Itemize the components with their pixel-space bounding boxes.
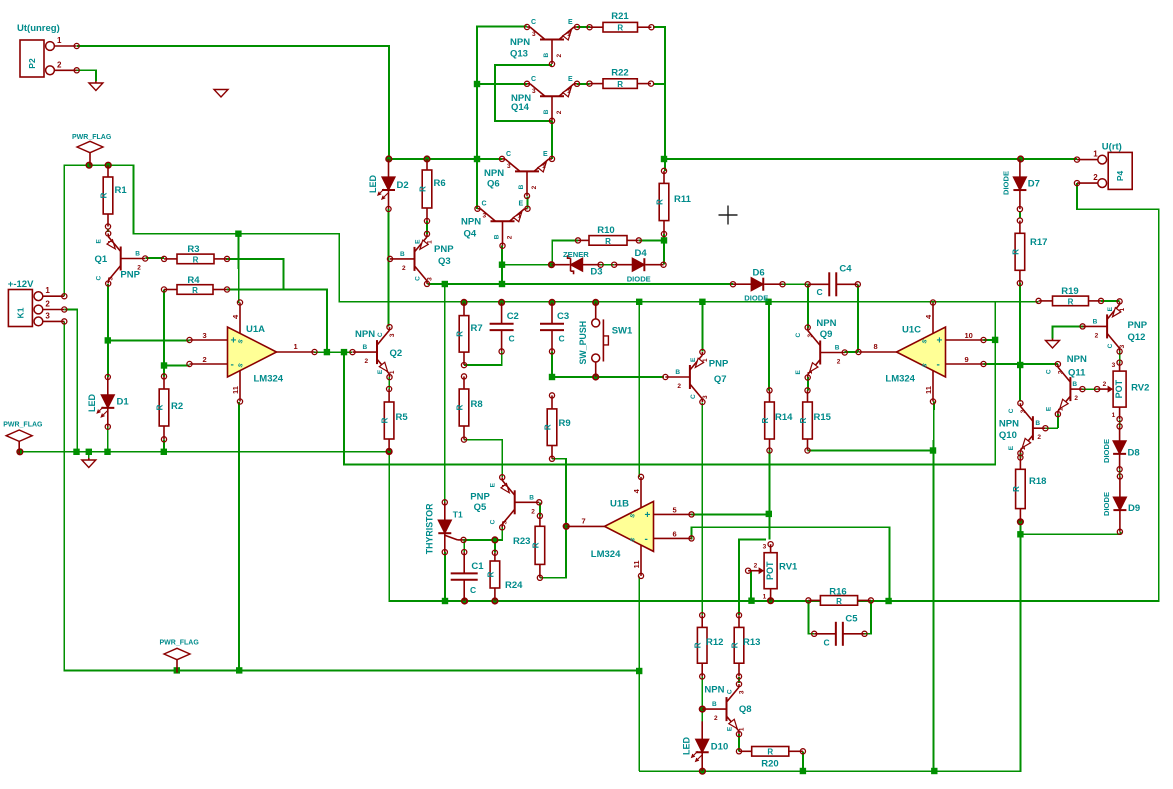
diode D7 (1002, 159, 1040, 212)
svg-text:1: 1 (542, 163, 546, 170)
wire U1B pin6 loop (692, 527, 890, 601)
svg-text:3: 3 (483, 213, 487, 220)
op-amp U1C (856, 300, 986, 404)
svg-text:E: E (727, 726, 734, 731)
svg-text:3: 3 (807, 334, 814, 338)
LED D10 (682, 721, 729, 771)
resistor R17 (1011, 218, 1047, 286)
wire C5 left to R16 left (808, 600, 814, 633)
svg-text:2: 2 (531, 508, 535, 515)
svg-text:R: R (731, 642, 740, 648)
svg-text:B: B (494, 234, 501, 239)
svg-text:3: 3 (203, 331, 207, 340)
wire Q14 base to Q6 emitter (551, 121, 553, 159)
svg-text:1: 1 (108, 240, 115, 244)
svg-text:R: R (531, 542, 540, 548)
wire R15 bottom row (808, 450, 934, 452)
wire Q13 emitter to R21 (577, 26, 590, 28)
wire R8 bottom to Q5 emitter (464, 440, 502, 477)
svg-text:R1: R1 (115, 185, 128, 196)
wire to U1A pin3 (108, 339, 190, 341)
svg-text:R9: R9 (559, 418, 571, 429)
junction (474, 81, 480, 87)
svg-text:1: 1 (1119, 307, 1126, 311)
wire U1A pin11 down (238, 402, 240, 671)
wire R4 right to output (227, 290, 327, 353)
wire to R24 top (494, 540, 496, 553)
wire D3 to D4 (601, 264, 615, 266)
junction (442, 598, 448, 604)
svg-text:3: 3 (532, 31, 536, 38)
svg-text:R4: R4 (187, 275, 200, 286)
svg-text:POT: POT (1114, 379, 1124, 398)
diode D9 (1102, 474, 1140, 535)
LED D1 (87, 374, 129, 429)
resistor R21 (587, 11, 654, 33)
pin junction (700, 706, 706, 712)
svg-text:R18: R18 (1029, 476, 1046, 487)
svg-text:R: R (381, 417, 390, 423)
svg-text:SW1: SW1 (612, 325, 633, 336)
svg-text:3: 3 (763, 544, 767, 551)
svg-text:NPN: NPN (355, 329, 375, 340)
svg-text:C4: C4 (839, 264, 852, 275)
junction (174, 667, 180, 673)
svg-text:2: 2 (57, 60, 62, 69)
wire Q9 emitter to R15 (807, 377, 809, 390)
svg-text:Q5: Q5 (474, 502, 487, 513)
svg-text:C: C (96, 276, 103, 281)
svg-text:B: B (363, 344, 368, 351)
svg-text:R: R (656, 199, 665, 205)
svg-text:D10: D10 (711, 742, 728, 753)
svg-text:4: 4 (231, 314, 240, 319)
svg-text:PWR_FLAG: PWR_FLAG (3, 422, 43, 429)
resistor R4 (161, 275, 229, 295)
svg-text:E: E (568, 19, 573, 26)
junction (442, 281, 448, 287)
resistor R11 (656, 168, 692, 236)
wire K1 pin3 ground rail (64, 321, 639, 670)
svg-text:PNP: PNP (1128, 320, 1148, 331)
resistor R5 (381, 386, 409, 453)
ground (1046, 339, 1060, 349)
svg-text:SW_PUSH: SW_PUSH (578, 321, 588, 365)
svg-text:R: R (617, 80, 623, 89)
wire D9 bottom stub (1119, 532, 1121, 535)
pin junction (549, 300, 555, 306)
svg-text:R: R (1012, 486, 1021, 492)
svg-text:ZENER: ZENER (563, 250, 589, 259)
wire Q7 collector to R12 (701, 403, 703, 616)
svg-text:R19: R19 (1061, 286, 1078, 297)
wire R6 bottom to Q3 emitter (426, 221, 428, 234)
potentiometer RV2 (1095, 360, 1150, 422)
svg-text:3: 3 (1112, 362, 1116, 369)
wire P2 pin2 to ground (77, 70, 96, 81)
svg-text:E: E (519, 201, 524, 208)
wire output bus to U1C pin10 (344, 302, 995, 465)
junction (636, 299, 642, 305)
svg-text:NPN: NPN (816, 318, 836, 329)
wire C3 bottom down (551, 351, 553, 377)
svg-text:C: C (559, 334, 565, 344)
svg-text:U1B: U1B (610, 499, 629, 510)
diode D3 (549, 250, 603, 277)
wire Q13 collector column (477, 27, 527, 210)
svg-text:R: R (836, 597, 842, 606)
pin junction (499, 300, 505, 306)
svg-text:U(rt): U(rt) (1102, 142, 1122, 153)
transistor Q9 (795, 318, 847, 380)
connector P4 (1074, 142, 1132, 190)
svg-text:U1A: U1A (246, 324, 265, 335)
wire R18 bottom rail (639, 522, 1020, 771)
svg-text:D9: D9 (1128, 503, 1140, 514)
svg-text:R: R (456, 331, 465, 337)
svg-text:3: 3 (507, 163, 511, 170)
svg-text:C2: C2 (507, 311, 519, 322)
svg-text:Q9: Q9 (820, 329, 833, 340)
junction (161, 362, 167, 368)
svg-text:D1: D1 (117, 397, 130, 408)
transistor Q2 (350, 325, 402, 380)
svg-text:Q1: Q1 (95, 254, 108, 265)
svg-text:R: R (419, 186, 428, 192)
svg-text:R: R (100, 192, 109, 198)
pin junction (700, 768, 706, 774)
wire Q10 emitter to R18 (1019, 453, 1021, 457)
svg-text:D8: D8 (1128, 448, 1140, 459)
wire down to D5 anode (444, 284, 446, 502)
wire C3 node to Q7 base (552, 376, 664, 378)
svg-text:PWR_FLAG: PWR_FLAG (160, 640, 200, 647)
svg-text:B: B (675, 369, 680, 376)
svg-text:LED: LED (682, 736, 692, 755)
svg-text:B: B (1093, 318, 1098, 325)
pin junction (386, 449, 392, 455)
junction (161, 449, 167, 455)
wire to Q14 collector (477, 83, 527, 85)
svg-text:1: 1 (502, 483, 509, 487)
resistor R8 (456, 374, 483, 442)
wire U1B pin4 up to bus (638, 302, 640, 477)
svg-text:K1: K1 (15, 307, 25, 318)
svg-text:R23: R23 (513, 536, 530, 547)
wire C4 left to Q9 collector (807, 284, 809, 328)
wire Q5 base to R23 top (539, 502, 541, 516)
transistor Q14 (511, 76, 580, 124)
svg-text:1: 1 (1057, 407, 1064, 411)
svg-text:2: 2 (556, 54, 563, 58)
wire D7 to R17 (1019, 211, 1021, 218)
svg-text:Q10: Q10 (999, 430, 1017, 441)
capacitor C2 (490, 302, 519, 354)
svg-text:Q2: Q2 (390, 348, 403, 359)
svg-text:3: 3 (108, 277, 115, 281)
svg-text:1: 1 (763, 594, 767, 601)
transistor Q10 (999, 401, 1048, 456)
wire Q1 base to R3 (145, 257, 164, 259)
transistor Q7 (663, 349, 729, 404)
wire U1A output to Q2 base (314, 351, 352, 353)
svg-text:11: 11 (231, 386, 240, 394)
junction (474, 156, 480, 162)
svg-text:1: 1 (389, 370, 396, 374)
resistor R15 (799, 388, 832, 453)
svg-text:R16: R16 (829, 587, 846, 598)
svg-text:THYRISTOR: THYRISTOR (424, 503, 434, 554)
pin junction (105, 162, 111, 168)
wire RV2 to D8 (1119, 419, 1121, 426)
svg-text:1: 1 (45, 286, 50, 295)
svg-text:Q3: Q3 (438, 256, 451, 267)
svg-text:B: B (712, 701, 717, 708)
svg-text:R5: R5 (396, 412, 409, 423)
svg-text:DIODE: DIODE (1102, 492, 1111, 516)
wire C5 right to R16 right (865, 600, 871, 633)
power flag PWR_FLAG (72, 134, 112, 166)
wire R21 to R11 top (653, 27, 665, 171)
wire R19 to Q12 emitter (1101, 300, 1120, 302)
wire R20 right down (802, 751, 804, 771)
wire P4 pin2 long rail (389, 183, 1159, 601)
wire to C1 top (463, 540, 465, 552)
wire Q2 emitter to R5 (388, 377, 390, 389)
svg-text:C: C (1008, 408, 1015, 413)
pin junction (492, 598, 498, 604)
svg-text:11: 11 (632, 560, 641, 568)
svg-text:7: 7 (582, 516, 586, 525)
pin junction (1018, 156, 1024, 162)
svg-text:3: 3 (45, 311, 50, 320)
wire D1 bottom (107, 427, 109, 452)
svg-text:+: + (937, 336, 943, 347)
svg-text:DIODE: DIODE (744, 294, 768, 303)
wire R3 right feedback (226, 259, 284, 290)
wire U1C pin10 stub (984, 339, 996, 341)
wire Q5 collector to D5 gate (464, 525, 503, 540)
wire Q4 base down (501, 246, 503, 285)
wire Q3 collector row to D6 (427, 283, 733, 285)
junction (499, 281, 505, 287)
svg-text:U1C: U1C (902, 325, 921, 336)
svg-text:-: - (937, 360, 940, 371)
wire Q6 base to Q4 emitter (526, 196, 528, 208)
svg-text:C: C (531, 19, 536, 26)
svg-text:PNP: PNP (120, 270, 140, 281)
svg-text:B: B (543, 53, 550, 58)
wire RV1 wiper down (750, 571, 752, 600)
svg-text:E: E (543, 151, 548, 158)
svg-text:R: R (767, 748, 773, 757)
junction (73, 449, 79, 455)
pin junction (549, 262, 555, 268)
svg-text:2: 2 (1037, 434, 1041, 441)
svg-text:1: 1 (57, 36, 62, 45)
svg-text:PWR_FLAG: PWR_FLAG (72, 134, 112, 141)
pin junction (424, 156, 430, 162)
svg-text:Q13: Q13 (510, 48, 528, 59)
svg-text:R: R (605, 237, 611, 246)
svg-text:C: C (531, 76, 536, 83)
junction (324, 349, 330, 355)
wire P2 pin1 to D2 node (77, 46, 389, 159)
svg-text:1: 1 (294, 342, 298, 351)
svg-text:E: E (795, 370, 802, 375)
diode D6 (730, 268, 785, 303)
svg-text:LM324: LM324 (254, 374, 284, 385)
svg-text:11: 11 (924, 386, 933, 394)
svg-text:2: 2 (365, 358, 369, 365)
svg-text:3: 3 (1119, 344, 1126, 348)
junction (236, 667, 242, 673)
junction (341, 349, 347, 355)
wire Q11 base to RV2 wiper (1082, 388, 1097, 390)
svg-text:2: 2 (203, 355, 207, 364)
svg-text:POT: POT (765, 561, 775, 580)
svg-text:1: 1 (427, 240, 434, 244)
svg-text:C3: C3 (557, 311, 569, 322)
svg-text:R3: R3 (187, 244, 199, 255)
junction (105, 337, 111, 343)
svg-text:P2: P2 (27, 58, 37, 69)
resistor R1 (100, 165, 128, 229)
wire C4 right to Q9 base node (857, 284, 859, 352)
svg-text:E: E (568, 76, 573, 83)
transistor Q1 (95, 231, 148, 286)
svg-text:3: 3 (1020, 409, 1027, 413)
svg-text:+: + (645, 510, 651, 521)
svg-text:E: E (415, 239, 422, 244)
wire Q8 emitter to R20 (738, 734, 740, 751)
wire gnd stub (88, 452, 90, 458)
pin junction (593, 374, 599, 380)
svg-text:D3: D3 (590, 267, 602, 278)
wire D5 cathode to rail (444, 552, 446, 601)
svg-text:NPN: NPN (1067, 354, 1087, 365)
junction (1017, 531, 1023, 537)
wire K1 pin2 down (64, 310, 77, 452)
diode D4 (612, 248, 667, 284)
svg-text:5: 5 (673, 505, 677, 514)
svg-text:1: 1 (567, 88, 571, 95)
junction (765, 299, 771, 305)
resistor R20 (736, 747, 805, 770)
capacitor C1 (451, 550, 485, 604)
wire R18 to D9 bottom (1020, 533, 1120, 535)
pin junction (563, 523, 569, 529)
svg-text:R6: R6 (434, 178, 446, 189)
junction (931, 768, 937, 774)
svg-text:R: R (694, 642, 703, 648)
svg-text:2: 2 (507, 235, 514, 239)
svg-text:2: 2 (45, 300, 50, 309)
power flag PWR_FLAG (3, 422, 43, 455)
svg-text:NPN: NPN (484, 168, 504, 179)
svg-text:C: C (490, 519, 497, 524)
LED D2 (368, 159, 409, 212)
svg-text:NPN: NPN (510, 37, 530, 48)
svg-text:Q12: Q12 (1128, 332, 1146, 343)
svg-text:B: B (1035, 420, 1040, 427)
junction (86, 449, 92, 455)
wire bus to P4 pin1 (664, 158, 1077, 160)
svg-text:R13: R13 (743, 637, 760, 648)
cursor crosshair (719, 206, 738, 225)
svg-text:2: 2 (714, 715, 718, 722)
svg-text:D7: D7 (1028, 179, 1040, 190)
svg-text:C: C (506, 151, 511, 158)
svg-text:Q4: Q4 (464, 229, 477, 240)
pin junction (461, 300, 467, 306)
svg-text:R20: R20 (761, 759, 778, 770)
svg-text:2: 2 (1103, 381, 1107, 388)
svg-text:LM324: LM324 (591, 549, 621, 560)
svg-text:Ut(unreg): Ut(unreg) (17, 23, 60, 34)
svg-text:B: B (529, 494, 534, 501)
svg-text:E: E (690, 357, 697, 362)
resistor R3 (162, 244, 230, 264)
svg-text:1: 1 (567, 31, 571, 38)
wire Q14 emitter to R22 (577, 83, 590, 85)
wire R1 to Q1 emitter (107, 229, 109, 232)
resistor R16 (806, 587, 874, 606)
svg-text:R: R (486, 571, 495, 577)
resistor R10 (575, 225, 641, 246)
svg-text:3: 3 (532, 88, 536, 95)
svg-text:R7: R7 (471, 323, 483, 334)
wire Q10 base (1045, 427, 1058, 429)
svg-text:B: B (1072, 381, 1077, 388)
connector P2 (17, 23, 79, 77)
transistor Q12 (1080, 299, 1148, 354)
wire R9 bottom to U1B pin7 to R23 (540, 459, 566, 578)
svg-text:2: 2 (677, 383, 681, 390)
svg-text:2: 2 (1093, 173, 1098, 182)
svg-text:R17: R17 (1030, 237, 1047, 248)
svg-text:PNP: PNP (470, 492, 490, 503)
transistor Q8 (699, 682, 751, 737)
svg-text:C: C (795, 333, 802, 338)
svg-text:2: 2 (556, 110, 563, 114)
resistor R22 (587, 68, 654, 90)
svg-text:P4: P4 (1115, 170, 1125, 181)
transistor Q3 (387, 231, 454, 286)
wire Q1 collector to D1 (107, 284, 109, 377)
svg-text:R24: R24 (505, 580, 523, 591)
wire U1B pin5 (692, 513, 769, 515)
wire U1C pin11 column (933, 451, 935, 771)
ground (82, 458, 96, 468)
junction (930, 447, 936, 453)
svg-text:DIODE: DIODE (1002, 171, 1011, 195)
svg-text:C: C (817, 287, 823, 297)
connector K1 (8, 279, 67, 327)
wire R10 left to zener (552, 240, 578, 264)
svg-text:R2: R2 (171, 401, 183, 412)
wire R7 bottom to C2 bottom (464, 351, 502, 365)
wire R14 bottom to RV1 top (769, 451, 771, 540)
svg-text:C: C (470, 585, 476, 595)
resistor R13 (731, 613, 761, 679)
junction (1017, 362, 1023, 368)
svg-text:2: 2 (531, 185, 538, 189)
svg-text:R14: R14 (775, 412, 793, 423)
wire to U1A pin2 (164, 365, 190, 367)
svg-text:2: 2 (1074, 395, 1078, 402)
wire R12 bottom to D10 (701, 676, 703, 721)
